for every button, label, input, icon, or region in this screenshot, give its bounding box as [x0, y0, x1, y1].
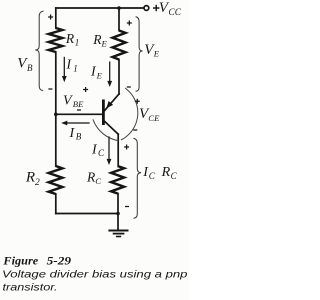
svg-text:R: R	[25, 170, 35, 186]
svg-text:E: E	[101, 38, 108, 48]
svg-text:C: C	[149, 171, 156, 181]
svg-text:C: C	[98, 148, 105, 158]
svg-text:2: 2	[35, 178, 40, 188]
svg-text:Voltage divider bias using a p: Voltage divider bias using a pnp	[2, 269, 188, 280]
svg-text:1: 1	[75, 37, 80, 47]
svg-text:Figure: Figure	[2, 255, 38, 268]
svg-text:CC: CC	[169, 8, 182, 18]
svg-text:E: E	[96, 70, 103, 80]
svg-text:E: E	[153, 48, 160, 58]
svg-text:R: R	[65, 31, 75, 46]
svg-text:B: B	[76, 132, 82, 142]
svg-text:1: 1	[73, 63, 78, 73]
svg-text:transistor.: transistor.	[3, 283, 58, 294]
svg-text:5-29: 5-29	[47, 255, 72, 268]
svg-text:V: V	[63, 93, 73, 108]
svg-text:CE: CE	[148, 113, 160, 123]
svg-text:R: R	[161, 165, 171, 180]
svg-text:B: B	[27, 63, 33, 73]
svg-text:C: C	[95, 176, 101, 186]
svg-text:C: C	[171, 171, 178, 181]
svg-text:BE: BE	[73, 99, 84, 109]
